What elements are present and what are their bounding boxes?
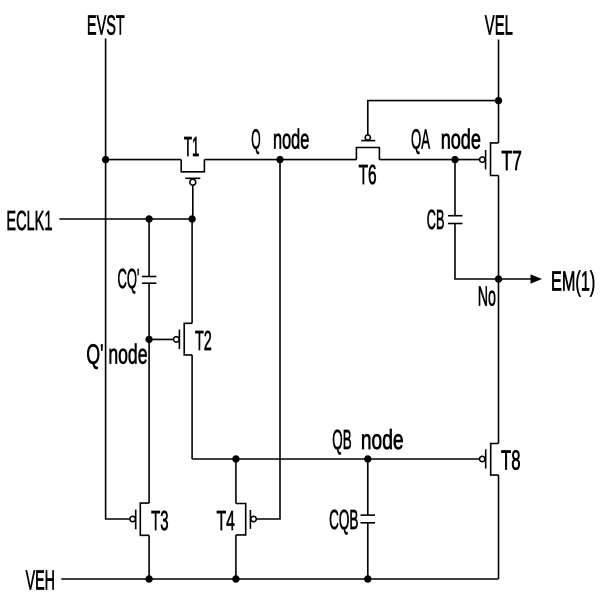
transistor T2 gate circle <box>174 337 180 343</box>
node QA node dot <box>451 156 458 163</box>
transistor T8 gate circle <box>480 456 485 461</box>
svg-text:T2: T2 <box>195 325 212 356</box>
wire VEL vertical drop <box>498 40 500 143</box>
capacitor CQ' bottom plate <box>142 282 157 284</box>
node rail/CQB dot <box>364 575 371 582</box>
transistor T3 gate circle <box>130 516 135 521</box>
wire row A right (T6 to T7 gate via QA node) <box>379 159 479 161</box>
wire T8 main from No node <box>498 279 500 444</box>
capacitor CQB top plate <box>361 514 376 516</box>
transistor T7 gate circle <box>480 157 485 162</box>
node rail/T3 dot <box>145 575 152 582</box>
wire T4 main from QB row <box>235 459 237 504</box>
wire Q' node to T2 gate <box>149 338 173 340</box>
transistor T2 channel <box>184 323 192 355</box>
wire VEH rail <box>61 578 498 580</box>
svg-text:Q: Q <box>251 123 260 154</box>
transistor T6 gate circle <box>365 135 370 140</box>
node No dot <box>495 275 502 282</box>
svg-text:T4: T4 <box>217 505 235 536</box>
transistor T4 gate circle <box>251 516 256 521</box>
node QB/T4 dot <box>232 455 239 462</box>
svg-text:node: node <box>361 424 404 455</box>
node ECLK1/T1 gate dot <box>188 215 195 222</box>
node VEL/T6 feed dot <box>495 97 502 104</box>
transistor T2 gate bar <box>178 330 180 350</box>
svg-text:QA: QA <box>411 124 430 155</box>
svg-text:VEL: VEL <box>485 10 513 41</box>
arrowhead EM(1) output <box>531 274 543 283</box>
transistor T3 gate bar <box>135 510 137 530</box>
wire ECLK1 to CQ' <box>148 219 150 277</box>
svg-text:T8: T8 <box>501 445 521 476</box>
transistor T1 gate circle <box>190 179 196 185</box>
svg-text:T1: T1 <box>184 131 199 162</box>
capacitor CQB bottom plate <box>361 522 376 524</box>
svg-text:CQB: CQB <box>329 504 358 535</box>
transistor T8 channel <box>491 444 499 476</box>
wire QB row (T2 to T8 gate) <box>192 458 479 460</box>
wire row A left (EVST to T1) <box>106 159 182 161</box>
svg-text:T7: T7 <box>501 145 522 176</box>
node Q' node dot <box>145 336 152 343</box>
node dot EVST/row A <box>102 156 109 163</box>
wire EM output arrow line <box>499 278 532 280</box>
capacitor CB top plate <box>448 215 463 217</box>
wire T6 gate feed to VEL <box>368 101 499 135</box>
wire T2 main from ECLK1 <box>191 219 193 323</box>
transistor T8 gate bar <box>485 449 487 468</box>
wire T4 source down to rail <box>235 535 237 579</box>
wire T8 source down to rail <box>498 475 500 579</box>
node rail/T4 dot <box>232 575 239 582</box>
wire CQ' down through Q' node to T3 <box>148 283 150 503</box>
transistor T7 channel <box>491 143 499 176</box>
svg-text:node: node <box>441 124 481 155</box>
svg-text:No: No <box>478 281 496 312</box>
transistor T1 gate bar <box>185 177 200 179</box>
svg-text:EVST: EVST <box>87 9 125 40</box>
wire T2 source down to QB row <box>191 355 193 459</box>
node QB/CQB dot <box>364 455 371 462</box>
wire CQB down to rail <box>367 523 369 579</box>
wire EVST vertical drop to T3 gate <box>106 39 130 520</box>
transistor T7 gate bar <box>485 150 487 169</box>
svg-text:CB: CB <box>427 204 445 235</box>
capacitor CB bottom plate <box>448 223 463 225</box>
wire ECLK1 horizontal <box>59 218 192 220</box>
transistor T3 channel <box>140 503 149 535</box>
wire row A middle (T1 to T6 via Q node) <box>204 159 356 161</box>
svg-text:ECLK1: ECLK1 <box>6 205 52 236</box>
svg-text:CQ': CQ' <box>118 263 140 294</box>
svg-text:QB: QB <box>332 424 351 455</box>
wire T3 source down to rail <box>148 535 150 579</box>
capacitor CQ' top plate <box>142 276 157 278</box>
wire T7 drain down to No node <box>498 176 500 280</box>
svg-text:VEH: VEH <box>26 565 55 596</box>
wire Q node vertical drop to T4 gate <box>256 160 280 519</box>
wire QA node down to CB <box>454 160 456 216</box>
transistor T6 channel <box>356 148 379 160</box>
svg-text:Q' node: Q' node <box>86 339 147 370</box>
transistor T6 gate bar <box>361 140 375 142</box>
transistor T1 channel <box>181 160 204 172</box>
transistor T4 channel <box>236 504 246 535</box>
svg-text:node: node <box>273 123 309 154</box>
wire QB node down to CQB <box>367 459 369 515</box>
wire T1 gate to ECLK1 <box>192 186 194 220</box>
svg-text:T6: T6 <box>359 159 377 190</box>
transistor T4 gate bar <box>249 510 251 529</box>
node Q node dot <box>276 156 283 163</box>
node ECLK1/CQ' dot <box>145 215 152 222</box>
svg-text:T3: T3 <box>151 505 168 536</box>
svg-text:EM(1): EM(1) <box>551 266 595 297</box>
wire CB to No node <box>455 224 499 280</box>
